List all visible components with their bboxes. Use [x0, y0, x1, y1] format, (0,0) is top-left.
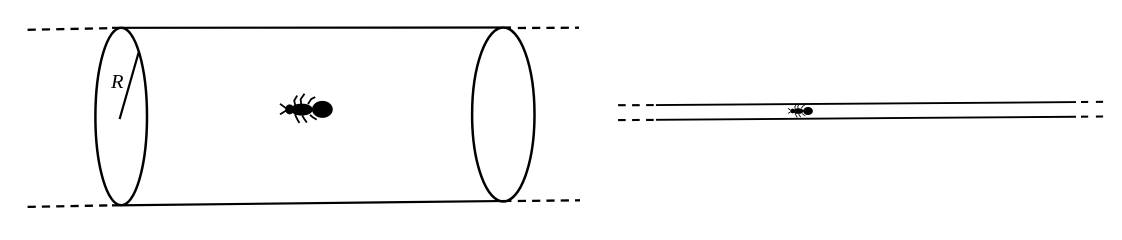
right figure: tube bottom dashed extension (left) [618, 119, 654, 121]
left figure: ant on cylinder [280, 94, 333, 123]
svg-text:R: R [110, 71, 124, 93]
left figure: radius line [120, 53, 139, 120]
right figure: tube top dashed extension (left) [618, 104, 654, 106]
left figure: left end-cap ellipse of cylinder [95, 28, 147, 206]
right figure: tube top edge line [656, 102, 1076, 105]
right figure: tube top dashed extension (right) [1081, 101, 1103, 103]
right figure: tube bottom dashed extension (right) [1081, 115, 1103, 117]
right figure: ant seen edge-on [788, 104, 813, 118]
left figure: cylinder bottom dashed extension (right) [518, 199, 580, 202]
left figure: cylinder bottom dashed extension (left) [28, 205, 114, 207]
left figure: cylinder bottom edge line [112, 201, 511, 206]
left figure: cylinder top edge line [112, 26, 511, 28]
left figure: cylinder top dashed extension (right) [518, 27, 579, 30]
left figure: right end-cap ellipse of cylinder [472, 28, 534, 202]
right figure: tube bottom edge line [656, 117, 1076, 120]
left figure: cylinder top dashed extension (left) [28, 28, 114, 30]
